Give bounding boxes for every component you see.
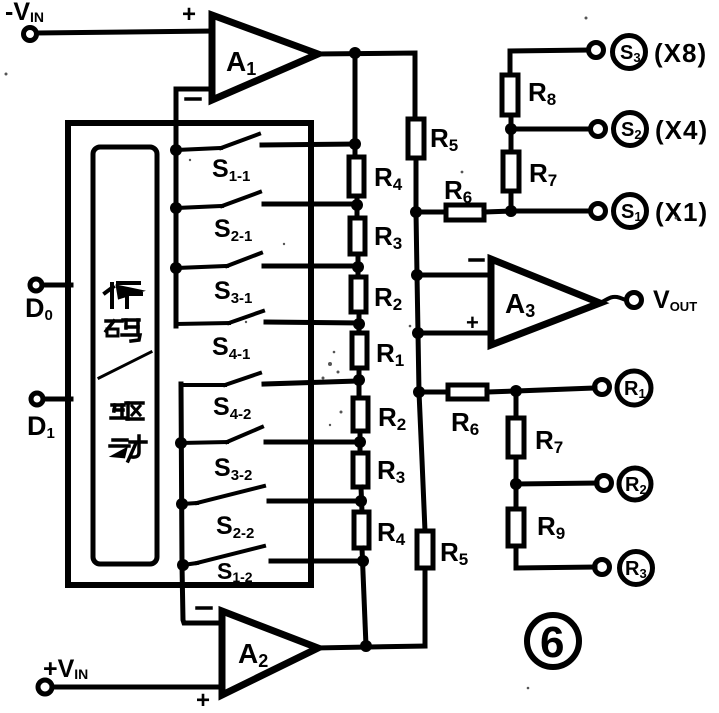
node S2-1 left (170, 202, 182, 214)
circled label R3 (620, 552, 653, 585)
node S2-2 left (176, 498, 188, 510)
terminal -VIN (24, 28, 37, 41)
switch S3-2 (181, 442, 227, 443)
resistor R4 (bottom) (354, 512, 369, 548)
resistor R8 (509, 115, 514, 129)
node A1 output to R ladder (349, 47, 361, 59)
circled label S3 (613, 36, 646, 69)
wire A3 output (600, 297, 627, 303)
switch S1-2 (183, 563, 197, 565)
decoder text 驱 (111, 403, 143, 419)
circled figure number 6 (527, 615, 579, 667)
terminal D0 (30, 279, 42, 291)
wire A3 noninverting input (418, 331, 491, 336)
terminal +VIN (38, 680, 52, 694)
label - (A2 inverting) (197, 606, 211, 610)
wire D1 (43, 397, 71, 402)
resistor R4 (top) (349, 157, 364, 196)
wire node to R6 bottom (419, 390, 448, 395)
node S3-2 left (175, 437, 187, 449)
resistor R7 (bottom) (514, 391, 519, 418)
wire S1 node to terminal (511, 209, 590, 214)
node S1-2 left (177, 559, 189, 571)
wire -VIN to A1 plus input (37, 31, 212, 33)
label Vout (653, 286, 697, 314)
circled label R1 (617, 371, 651, 405)
resistor R5 (top) (408, 119, 424, 158)
terminal S2 (591, 122, 606, 137)
decoder text 译 (105, 283, 141, 307)
resistor R3 (bottom) (353, 453, 368, 487)
node S1-1 left (170, 144, 182, 156)
wire A1 output (316, 53, 415, 119)
svg-text:(X1): (X1) (655, 197, 708, 227)
wire R2 node to terminal (516, 483, 597, 484)
label D0 (25, 293, 53, 324)
op-amp A1 (212, 15, 318, 100)
switch S1-1 (176, 148, 221, 150)
wire D0 (42, 283, 71, 288)
terminal R1 (595, 380, 610, 395)
terminal S3 (589, 43, 604, 58)
resistor R9 (514, 484, 519, 509)
wire +VIN to A2 noninverting (52, 685, 222, 690)
resistor R5 (bottom) (417, 531, 433, 568)
switch S4-1 (176, 323, 229, 324)
wire R1 node to terminal (516, 388, 595, 391)
svg-text:+: + (466, 310, 479, 335)
terminal Vout (627, 293, 642, 308)
resistor R2 (bottom) (353, 398, 368, 431)
label +VIN (43, 655, 88, 683)
wire R6 to S1 node (484, 211, 511, 212)
circled label S2 (614, 113, 647, 146)
label D1 (27, 411, 55, 442)
resistor R6 (bottom) (448, 385, 487, 399)
decoder text 动 (110, 436, 146, 461)
label - (A1 inverting) (186, 97, 200, 101)
terminal R3 (595, 560, 610, 575)
terminal S1 (591, 204, 606, 219)
wire S2 node to terminal (511, 127, 590, 132)
wire A3 inverting input (417, 273, 491, 278)
decoder slash (99, 352, 151, 378)
svg-text:(X4): (X4) (655, 115, 708, 145)
op-amp A2 (222, 611, 318, 695)
decoder text 码 (106, 320, 140, 341)
svg-text:6: 6 (540, 618, 564, 667)
decoder inner box (93, 147, 157, 564)
switch S3-1 (176, 266, 227, 268)
wire node to R6 top (416, 210, 446, 215)
terminal R2 (597, 476, 612, 491)
resistor R7 (top) (509, 191, 514, 211)
label - (A3 inverting) (470, 258, 483, 262)
wire R6 to R1 node (487, 391, 516, 392)
terminal D1 (31, 393, 43, 405)
wire A1 inverting input to switch bus (176, 89, 212, 326)
circled label S1 (614, 195, 647, 228)
svg-text:+: + (182, 1, 196, 28)
resistor R6 (top) (446, 205, 484, 220)
node S3-1 left (170, 262, 182, 274)
switch S2-2 (182, 503, 197, 504)
label + (A1 noninverting) (182, 1, 196, 28)
wire lower switch bus to A2 inverting (181, 384, 222, 623)
switch S4-2 (181, 383, 225, 387)
resistor R3 (top) (350, 218, 365, 254)
switch S2-1 (176, 206, 222, 208)
resistor ladder bus segments (353, 53, 358, 157)
circled label R2 (619, 468, 651, 500)
svg-text:+: + (196, 687, 210, 713)
resistor R2 (top) (351, 277, 366, 312)
decoder outer box (68, 123, 311, 585)
svg-text:(X8): (X8) (654, 38, 707, 68)
label -VIN (5, 0, 44, 26)
label + (A2 noninverting) (196, 687, 210, 713)
wire A2 output (316, 646, 425, 648)
op-amp A3 (491, 259, 600, 345)
resistor R1 (352, 333, 367, 368)
label + (A3 noninverting) (466, 310, 479, 335)
